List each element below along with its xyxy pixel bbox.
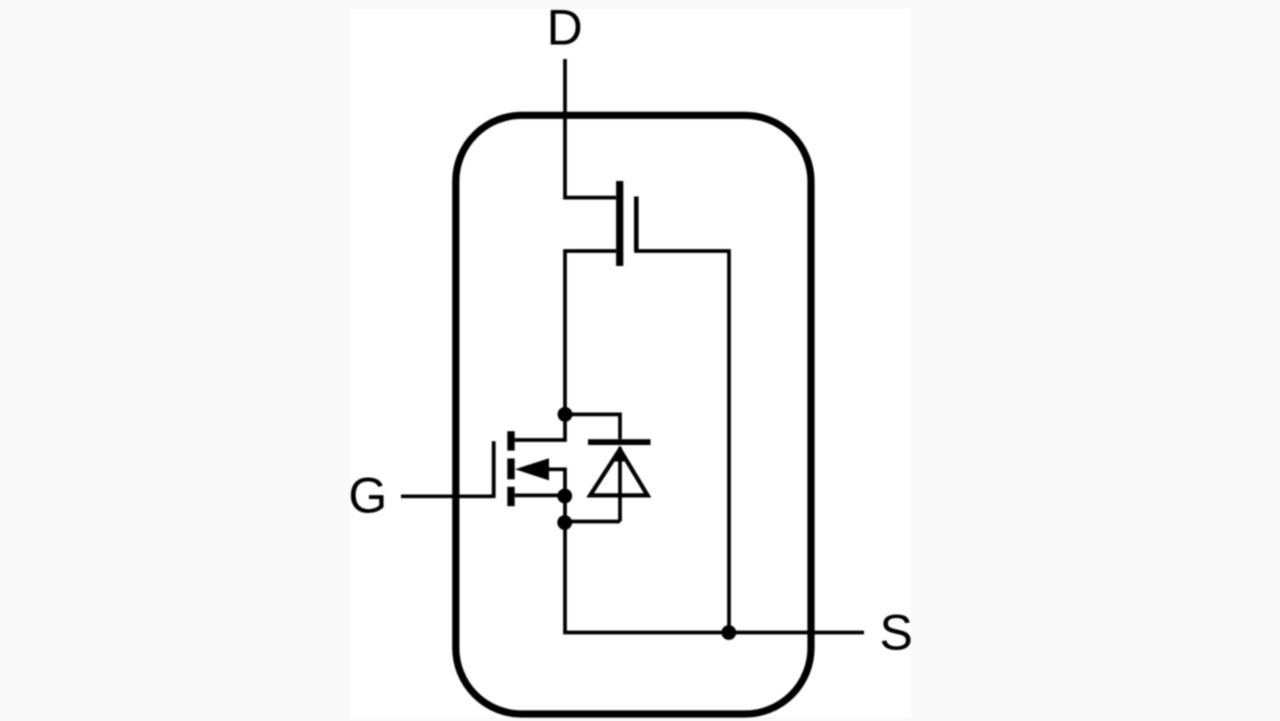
svg-text:G: G [348, 468, 387, 524]
svg-text:S: S [880, 605, 913, 661]
svg-text:D: D [547, 0, 583, 56]
